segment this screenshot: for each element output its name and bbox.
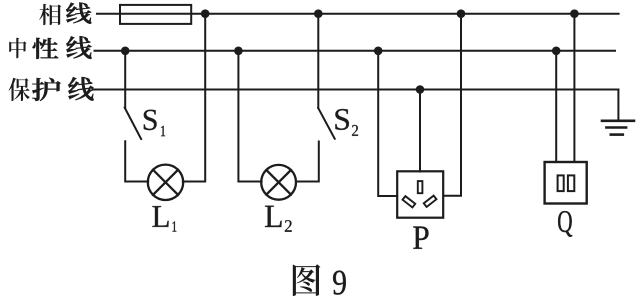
switch S2 blade (318, 108, 335, 139)
switch S1 blade (125, 108, 142, 140)
socket Q left slot (558, 175, 564, 191)
label 性 of 中性线 (33, 38, 59, 59)
junction node neutral-Q (552, 47, 561, 56)
wire socket P neutral lead (378, 51, 397, 196)
caption 图 of 图 9 (Figure 9, fat=0.55) (293, 264, 321, 296)
lamp L2 circle (261, 165, 296, 200)
label subscript 1 of S1 (161, 126, 165, 136)
label subscript 2 of L2 (285, 220, 292, 231)
wire S1 upper lead from neutral bus (124, 51, 126, 108)
wire lamp L2 left lead from neutral bus (238, 51, 261, 182)
caption figure number 9 (333, 271, 346, 295)
wire protective-earth bus 保护线 (93, 89, 619, 91)
junction node neutral-S1 (121, 47, 130, 56)
wire S1 lower lead down to lamp L1 (125, 141, 148, 181)
junction node live-P (457, 9, 466, 18)
junction node neutral-P (374, 47, 383, 56)
label subscript 1 of L1 (173, 221, 177, 231)
label L of lamp L2 (265, 206, 282, 227)
socket P left slot (403, 196, 416, 207)
fuse FU on live wire (120, 5, 191, 24)
ground symbol (602, 121, 634, 135)
label 保 of 保护线 (protective earth wire, fat=0.55) (9, 78, 30, 101)
label subscript 2 of S2 (352, 125, 358, 136)
junction node live-Q (570, 9, 579, 18)
wire S2 upper lead to live bus (317, 14, 319, 108)
junction node live-S2 (314, 9, 323, 18)
label 相 of 相线 (live wire, fat=0.55) (39, 4, 61, 25)
socket P body (397, 171, 443, 217)
wire lamp L1 right lead up to live bus (183, 14, 205, 182)
socket Q right slot (568, 175, 574, 191)
wire lamp L2 right lead up to switch S2 (296, 142, 319, 182)
lamp L1 circle (148, 165, 183, 200)
wire neutral bus 中性线 (95, 50, 616, 52)
label 护 of 保护线 (32, 78, 61, 101)
label S of switch S1 (144, 110, 157, 130)
label L of lamp L1 (152, 206, 168, 227)
wire live bus 相线 (97, 13, 619, 15)
socket P right slot (424, 196, 437, 207)
lamp L2 cross (266, 170, 291, 195)
label Q of socket Q (558, 211, 572, 237)
label 中 of 中性线 (neutral wire, fat=0.55) (9, 38, 26, 59)
label 线 of 保护线 (68, 77, 93, 101)
wire socket Q neutral lead (555, 51, 557, 162)
label S of switch S2 (335, 109, 349, 130)
label 线 of 中性线 (66, 36, 91, 59)
junction node neutral-L2 (234, 47, 243, 56)
junction node live-L1 (201, 9, 210, 18)
wire socket P live lead (443, 14, 461, 196)
label 线 of 相线 (66, 3, 91, 24)
lamp L1 cross (153, 170, 178, 195)
socket P earth slot (418, 181, 423, 193)
wire earth drop from protective bus (617, 90, 619, 121)
junction node earth-P (416, 85, 425, 94)
wire socket Q live lead (573, 14, 575, 162)
socket Q body (545, 162, 587, 204)
wire socket P earth lead (419, 90, 421, 172)
label P of socket P (413, 226, 428, 248)
